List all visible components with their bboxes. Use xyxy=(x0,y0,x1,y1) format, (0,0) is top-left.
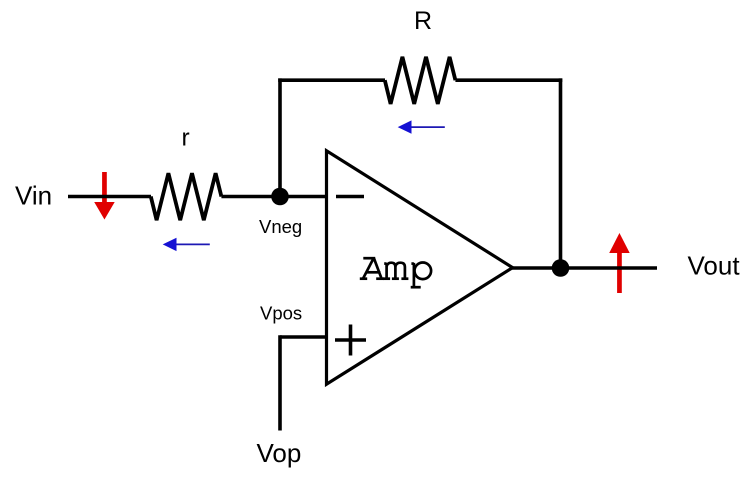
wire top left to resistor R xyxy=(278,78,385,82)
current arrow i (blue, left, under R) xyxy=(398,120,445,133)
current arrow Iout (red, up) xyxy=(609,233,630,293)
m xyxy=(384,262,386,265)
wire r to node Vneg xyxy=(221,195,280,199)
op-amp inverting input minus sign xyxy=(336,195,364,199)
svg-text:Vpos: Vpos xyxy=(260,303,302,324)
op-amp U1 triangle xyxy=(327,151,513,384)
p xyxy=(411,262,414,265)
resistor r xyxy=(151,173,222,220)
current arrow i (blue, left, under r) xyxy=(163,238,210,251)
svg-text:Vop: Vop xyxy=(257,438,302,468)
node Vout junction dot xyxy=(552,259,570,277)
wire R to right corner xyxy=(455,78,562,82)
wire feedback riser (left vertical) xyxy=(278,78,282,196)
resistor R xyxy=(385,57,456,104)
svg-text:Vout: Vout xyxy=(688,251,741,281)
op-amp non-inverting input plus sign xyxy=(335,325,366,356)
wire right vertical down to output node xyxy=(559,78,563,268)
wire Vpos input horizontal xyxy=(280,335,328,339)
wire Vop vertical xyxy=(278,335,282,430)
svg-text:R: R xyxy=(414,7,432,35)
svg-text:r: r xyxy=(182,125,190,152)
wire op-amp output to Vout xyxy=(512,266,657,270)
A xyxy=(363,257,375,260)
svg-text:Vin: Vin xyxy=(15,181,52,211)
svg-text:Vneg: Vneg xyxy=(259,216,302,237)
label Amp (typewriter-style drawn glyphs) xyxy=(360,258,431,288)
node Vneg junction dot xyxy=(271,188,289,206)
current arrow Iin (red, down) xyxy=(94,172,115,220)
wire Vin input xyxy=(68,195,151,199)
wire node Vneg to op-amp inverting input xyxy=(280,195,328,199)
